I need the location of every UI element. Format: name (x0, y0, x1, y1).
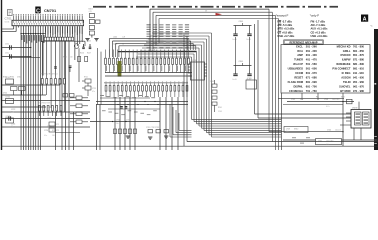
svg-text:561 - 600: 561 - 600 (306, 67, 318, 71)
svg-text:REFERENCE AREA MAP: REFERENCE AREA MAP (290, 41, 318, 44)
svg-text:Fsc49: Fsc49 (233, 79, 237, 81)
svg-text:S-704: S-704 (5, 21, 10, 23)
svg-text:A: A (363, 17, 367, 23)
svg-text:C249: C249 (210, 81, 214, 83)
svg-text:AMP: AMP (297, 53, 303, 57)
svg-text:AM -5.3 dBs: AM -5.3 dBs (277, 23, 292, 27)
svg-text:1u: 1u (122, 44, 124, 46)
svg-text:R721 R722 R723: R721 R722 R723 (38, 103, 50, 105)
svg-text:C206: C206 (239, 21, 243, 23)
svg-text:201 - 260: 201 - 260 (306, 44, 318, 48)
svg-text:MECHA KD: MECHA KD (337, 44, 351, 48)
svg-text:USB +3.9 dBs: USB +3.9 dBs (311, 34, 328, 38)
svg-text:911 - 940: 911 - 940 (353, 71, 364, 75)
svg-text:R261: R261 (218, 107, 222, 109)
svg-text:BT MOD: BT MOD (340, 89, 350, 93)
svg-text:IC701: IC701 (192, 60, 197, 62)
svg-text:W.REMAKE: W.REMAKE (336, 62, 351, 66)
svg-text:R741: R741 (84, 77, 88, 79)
svg-text:961 - 970: 961 - 970 (353, 85, 365, 89)
svg-text:IC702: IC702 (6, 97, 11, 99)
svg-text:Fsc49: Fsc49 (233, 39, 237, 41)
svg-text:C72: C72 (56, 124, 59, 126)
svg-text:R722: R722 (47, 112, 51, 114)
svg-text:R217: R217 (87, 53, 91, 55)
svg-text:4.7u: 4.7u (92, 91, 95, 93)
svg-text:D704: D704 (3, 93, 7, 95)
svg-text:10K: 10K (70, 57, 73, 59)
svg-text:AUX +0.1 dBs: AUX +0.1 dBs (311, 27, 328, 31)
svg-text:851 - 870: 851 - 870 (353, 53, 365, 57)
svg-text:C735: C735 (126, 120, 130, 122)
svg-text:PLL: PLL (316, 97, 319, 99)
svg-text:601 - 670: 601 - 670 (306, 71, 318, 75)
svg-text:881 - 890: 881 - 890 (353, 62, 365, 66)
svg-text:501 - 560: 501 - 560 (306, 62, 318, 66)
svg-text:871 - 880: 871 - 880 (353, 58, 365, 62)
svg-text:*except F: *except F (276, 13, 289, 17)
svg-text:S.NOVEL: S.NOVEL (339, 85, 351, 89)
svg-text:iPod CP: iPod CP (293, 62, 303, 66)
svg-text:C: C (36, 8, 40, 14)
svg-text:C705: C705 (291, 99, 295, 101)
svg-text:4.7u: 4.7u (300, 99, 303, 101)
svg-text:C726: C726 (44, 130, 48, 132)
svg-text:2.2u: 2.2u (286, 131, 289, 133)
svg-text:IC702: IC702 (6, 116, 11, 118)
svg-text:941 - 950: 941 - 950 (353, 76, 365, 80)
svg-text:C728: C728 (47, 118, 51, 120)
svg-text:IC REG: IC REG (342, 71, 351, 75)
svg-text:ILMPW: ILMPW (342, 58, 351, 62)
svg-text:681 - 690: 681 - 690 (306, 80, 318, 84)
svg-text:C725: C725 (92, 88, 96, 90)
svg-text:R251: R251 (63, 57, 67, 59)
svg-text:P.W CONNECT: P.W CONNECT (332, 67, 351, 71)
svg-text:C701: C701 (5, 16, 13, 20)
svg-text:AM -7.4 dBs: AM -7.4 dBs (311, 23, 326, 27)
svg-text:R201: R201 (89, 9, 93, 11)
svg-text:Fsc49: Fsc49 (247, 39, 251, 41)
svg-text:DVD/CD: DVD/CD (341, 53, 351, 57)
svg-text:261 - 300: 261 - 300 (306, 49, 318, 53)
svg-text:401 - 470: 401 - 470 (306, 58, 318, 62)
svg-text:691 - 700: 691 - 700 (306, 85, 318, 89)
svg-text:701 - 760: 701 - 760 (306, 89, 318, 93)
svg-text:UCOM: UCOM (295, 71, 303, 75)
svg-text:C73: C73 (56, 130, 59, 132)
svg-text:ASSGN: ASSGN (341, 76, 350, 80)
svg-text:C731 C732 C733: C731 C732 C733 (146, 127, 159, 129)
svg-text:R731: R731 (3, 77, 7, 79)
svg-text:TUNER: TUNER (294, 58, 303, 62)
svg-text:TELIN: TELIN (343, 80, 351, 84)
svg-text:671 - 680: 671 - 680 (306, 76, 318, 80)
svg-text:CN701: CN701 (44, 8, 57, 13)
svg-text:0.1u: 0.1u (11, 126, 14, 128)
svg-text:CD +0.3 dBs: CD +0.3 dBs (311, 30, 327, 34)
svg-text:10u: 10u (116, 123, 119, 125)
svg-text:IC705: IC705 (247, 78, 252, 80)
svg-text:R732: R732 (10, 77, 14, 79)
svg-text:801 - 850: 801 - 850 (353, 49, 365, 53)
svg-text:C204: C204 (113, 44, 117, 46)
svg-text:GRILL: GRILL (343, 49, 351, 53)
svg-text:C712: C712 (5, 53, 9, 55)
svg-text:CD +0.8 dBs: CD +0.8 dBs (277, 30, 293, 34)
svg-text:R216: R216 (80, 53, 84, 55)
svg-text:C740: C740 (327, 129, 331, 131)
svg-text:C729: C729 (47, 126, 51, 128)
svg-text:RCA: RCA (297, 49, 303, 53)
svg-text:301 - 400: 301 - 400 (306, 53, 318, 57)
svg-text:L709: L709 (286, 128, 290, 130)
svg-text:L703: L703 (116, 120, 120, 122)
svg-text:R711 R712 R713 R714: R711 R712 R713 R714 (40, 73, 57, 75)
svg-text:L202: L202 (113, 37, 117, 39)
svg-text:AUX +0.3 dBs: AUX +0.3 dBs (277, 27, 294, 31)
svg-text:4.7u: 4.7u (326, 106, 329, 108)
svg-text:C733: C733 (17, 77, 21, 79)
svg-text:L708: L708 (324, 99, 328, 101)
svg-text:10u: 10u (11, 111, 14, 113)
svg-text:100COND: 100COND (332, 99, 340, 101)
svg-text:FM -3.7 dBs: FM -3.7 dBs (277, 19, 292, 23)
svg-text:891 - 910: 891 - 910 (353, 67, 365, 71)
svg-text:C206: C206 (239, 61, 243, 63)
svg-text:CD MECHA: CD MECHA (289, 89, 303, 93)
svg-text:0.1u: 0.1u (44, 135, 47, 137)
svg-text:761 - 800: 761 - 800 (353, 44, 365, 48)
svg-text:USB&VIDEO: USB&VIDEO (288, 67, 303, 71)
svg-text:*only F: *only F (310, 13, 320, 17)
svg-text:EXCL: EXCL (296, 44, 303, 48)
svg-text:C711: C711 (5, 44, 9, 46)
svg-text:4.7u: 4.7u (326, 144, 329, 146)
svg-text:USB +3.7 dBs: USB +3.7 dBs (277, 34, 294, 38)
svg-text:CN708: CN708 (352, 108, 357, 110)
svg-text:C263: C263 (218, 111, 222, 113)
svg-text:R721: R721 (47, 107, 51, 109)
svg-text:971 - 980: 971 - 980 (353, 89, 365, 93)
svg-text:RESET: RESET (294, 76, 303, 80)
svg-text:951 - 960: 951 - 960 (353, 80, 365, 84)
svg-text:FM -1.7 dBs: FM -1.7 dBs (311, 19, 326, 23)
svg-text:DISPNL: DISPNL (293, 85, 303, 89)
svg-text:FLASH ROM: FLASH ROM (288, 80, 303, 84)
svg-text:100u/16: 100u/16 (335, 129, 341, 131)
